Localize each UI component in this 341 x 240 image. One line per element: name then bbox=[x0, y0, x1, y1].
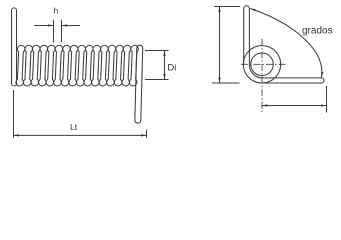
dimension h: extension tick right bbox=[61, 20, 63, 43]
svg-text:grados: grados bbox=[302, 26, 333, 37]
centerline horizontal bbox=[241, 63, 287, 65]
angle arc grados with arrows bbox=[250, 9, 322, 78]
centerline vertical bbox=[261, 39, 263, 113]
wire: bent leg outline (up leg, corner, right foot) bbox=[244, 6, 324, 83]
dimension Lt: left extension line bbox=[13, 90, 15, 138]
coil end view: outer circle bbox=[243, 46, 280, 83]
dimension h: left arrow line bbox=[34, 25, 54, 27]
svg-text:Lt: Lt bbox=[70, 122, 78, 132]
dimension Lt: horizontal arrow line bbox=[14, 134, 147, 136]
height dimension: vertical arrow line bbox=[219, 7, 221, 84]
leg length dimension: horizontal arrow line bbox=[262, 105, 327, 107]
svg-text:Di: Di bbox=[167, 62, 176, 73]
dimension Di: bottom extension line bbox=[145, 79, 169, 81]
height dimension: top extension line bbox=[214, 6, 240, 8]
leg length dimension: right extension line bbox=[326, 86, 328, 113]
dimension Lt: right extension tick bbox=[146, 130, 148, 138]
dimension h: right arrow line bbox=[62, 25, 81, 27]
wire: right leg hairpin (down) bbox=[135, 45, 143, 123]
wire: coil turns (16 stadium loops) bbox=[16, 45, 139, 86]
dimension Di: top extension line bbox=[145, 50, 169, 52]
dimension h: extension tick left bbox=[53, 20, 55, 43]
dimension Di: vertical arrow line bbox=[164, 51, 166, 80]
coil end view: inner circle bbox=[251, 53, 274, 76]
height dimension: bottom extension line bbox=[212, 82, 240, 84]
wire: left leg hairpin (up) bbox=[12, 8, 17, 86]
svg-text:h: h bbox=[54, 6, 59, 16]
